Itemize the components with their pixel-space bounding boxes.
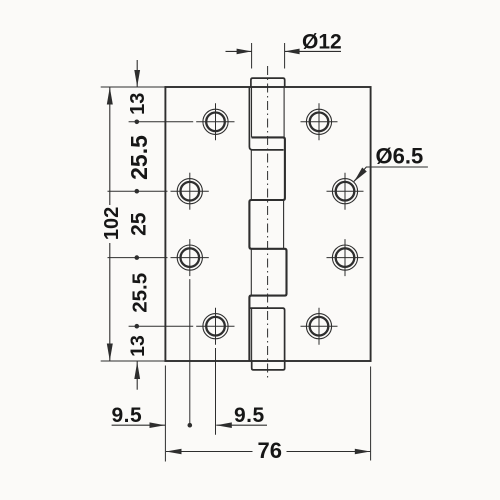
knuckle top cap [251, 78, 285, 87]
svg-text:9.5: 9.5 [234, 404, 265, 427]
screw hole A3 extension to chain [108, 257, 168, 259]
dim 102 line [107, 87, 113, 361]
svg-text:76: 76 [258, 438, 282, 463]
dim Ø12 extension line left [251, 43, 253, 69]
screw hole A2 [171, 173, 209, 210]
chain dot row1 [135, 120, 140, 125]
svg-text:102: 102 [101, 207, 123, 240]
knuckle segment 5 left thin edge [251, 309, 253, 361]
screw hole A4 extension down [215, 348, 217, 435]
knuckle segment 5 right curl [250, 308, 284, 361]
chain dot row2 [135, 189, 140, 194]
dim 102 extension line top [101, 86, 166, 88]
knuckle segment 4 left thin edge [250, 249, 252, 296]
hinge pin centerline [267, 66, 269, 379]
knuckle bottom cap [252, 361, 285, 370]
dim 9.5 first [112, 422, 165, 428]
screw hole A4 [196, 308, 234, 345]
screw hole B4 [301, 308, 338, 345]
screw hole A1 [196, 103, 234, 140]
knuckle segment 3 right thin edge [283, 200, 285, 249]
chain dot row4 [135, 324, 140, 329]
dim Ø12 right arrow and tail [285, 49, 341, 55]
svg-text:25.5: 25.5 [126, 135, 152, 180]
screw hole B1 [301, 103, 338, 140]
knuckle segment 1 left thin edge [251, 87, 253, 137]
screw hole A2 extension to chain [108, 190, 168, 192]
svg-text:13: 13 [127, 335, 149, 357]
screw hole A3 [171, 239, 209, 276]
knuckle segment 1 right thin edge [283, 87, 285, 137]
svg-text:9.5: 9.5 [112, 404, 143, 427]
svg-text:25.5: 25.5 [128, 273, 151, 313]
knuckle segment 2 left thin edge [250, 150, 252, 200]
svg-text:25: 25 [128, 212, 151, 236]
bottom extension left edge [164, 366, 166, 462]
screw hole A1 extension to chain [129, 121, 194, 123]
chain top arrow [134, 60, 140, 87]
knuckle segment 1 left curl [249, 87, 283, 150]
bottom extension right edge [370, 367, 372, 461]
chain dot row3 [135, 255, 140, 260]
dim Ø6.5 leader [354, 167, 428, 182]
knuckle snake outline [249, 137, 286, 361]
chain bottom arrow [134, 361, 140, 390]
screw hole B2 [327, 173, 364, 210]
screw hole A4 extension to chain [129, 325, 194, 327]
dim Ø12 extension line right [284, 43, 286, 69]
screw hole A3 extension down [189, 279, 191, 425]
dim Ø12 left arrow [226, 49, 252, 55]
svg-text:Ø6.5: Ø6.5 [376, 144, 424, 169]
dim 9.5 second [216, 422, 267, 428]
screw hole B3 [327, 239, 364, 276]
hinge leaves outline [165, 87, 370, 361]
dim 102 extension line bottom [101, 360, 166, 362]
svg-text:Ø12: Ø12 [302, 30, 342, 53]
svg-text:13: 13 [127, 93, 149, 115]
chain dot bottom [188, 423, 193, 428]
dim 76 line [166, 449, 370, 455]
